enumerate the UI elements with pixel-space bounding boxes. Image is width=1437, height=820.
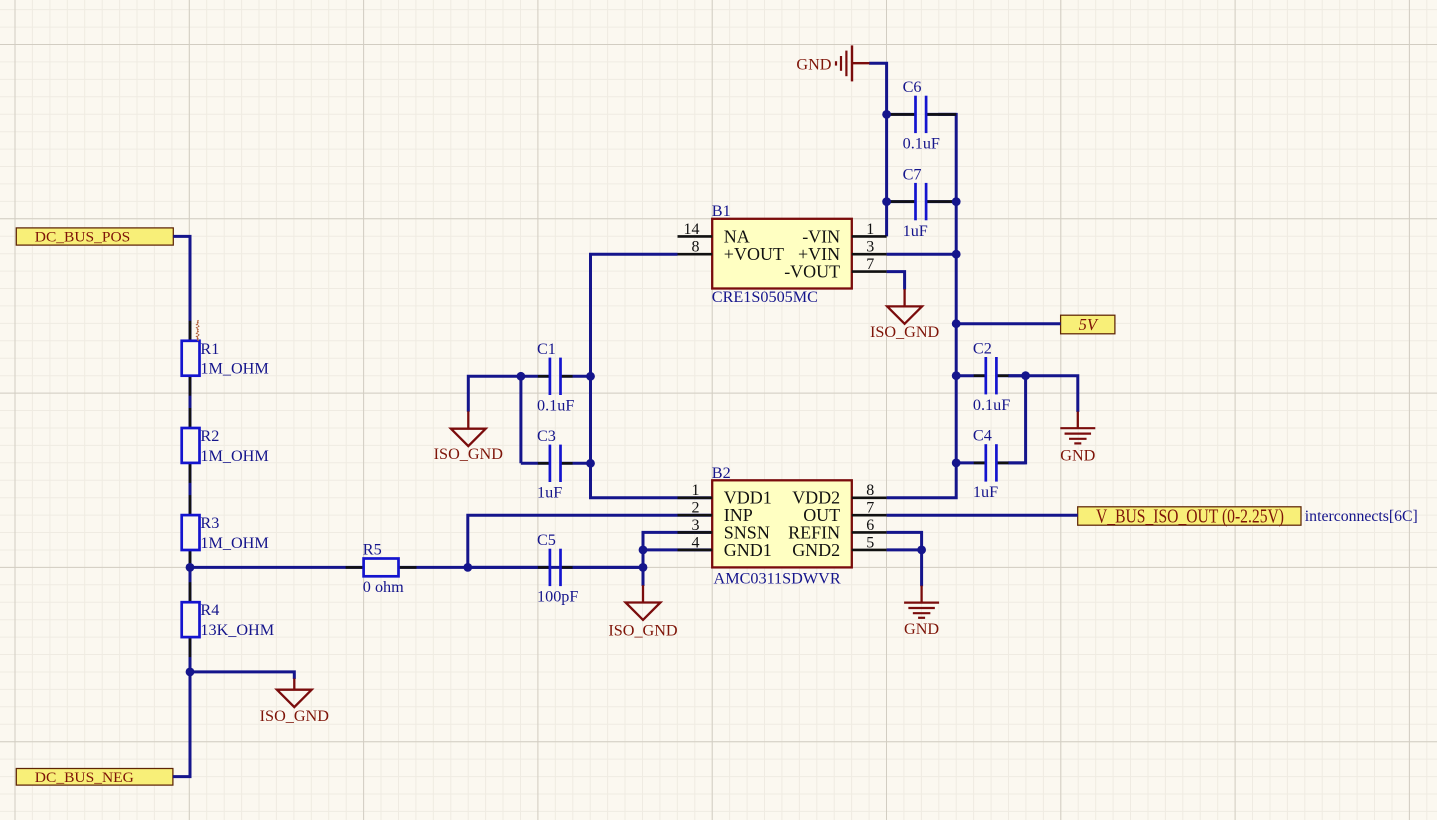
svg-text:GND: GND xyxy=(904,620,939,638)
svg-text:C1: C1 xyxy=(537,340,556,358)
wire R1 to R2 xyxy=(189,376,192,429)
wire B1 pin 8 +VOUT to B2 pin 1 VDD1 xyxy=(591,254,713,498)
svg-text:CRE1S0505MC: CRE1S0505MC xyxy=(712,288,818,306)
wire C2 right to C4 right xyxy=(1008,376,1026,463)
svg-text:interconnects[6C]: interconnects[6C] xyxy=(1305,507,1418,525)
svg-text:C3: C3 xyxy=(537,427,556,445)
svg-text:0.1uF: 0.1uF xyxy=(973,396,1010,414)
wire R5 to C5 node xyxy=(399,566,644,569)
pin 3 SNSN xyxy=(678,531,713,534)
svg-text:0 ohm: 0 ohm xyxy=(363,578,404,596)
svg-text:2: 2 xyxy=(692,500,700,517)
junction R5/C5/INP xyxy=(463,563,472,572)
svg-text:C6: C6 xyxy=(903,78,922,96)
svg-text:1: 1 xyxy=(692,482,700,499)
svg-text:ISO_GND: ISO_GND xyxy=(870,323,940,341)
svg-text:4: 4 xyxy=(692,534,700,551)
pin 1 -VIN xyxy=(852,235,887,238)
wire B2 pin 7 OUT to port xyxy=(887,514,1078,517)
ground GND top (rotated earth) xyxy=(796,45,869,81)
junction C1 left xyxy=(517,372,526,381)
pin 8 +VOUT xyxy=(678,253,713,256)
svg-text:GND: GND xyxy=(1060,446,1095,464)
wire C6 right to main vertical xyxy=(887,114,957,497)
pin 6 REFIN xyxy=(852,531,887,534)
junction C4 left xyxy=(952,459,961,468)
resistor R5 0 ohm xyxy=(346,541,417,596)
svg-text:6: 6 xyxy=(866,517,874,534)
wire INP riser to B2 pin 2 xyxy=(468,515,712,567)
svg-text:14: 14 xyxy=(684,221,700,238)
svg-text:1M_OHM: 1M_OHM xyxy=(200,534,268,552)
junction C3 right xyxy=(586,459,595,468)
svg-text:C7: C7 xyxy=(903,165,922,183)
isolated amplifier B2 AMC0311SDWVR xyxy=(678,464,887,587)
wire R2 to R3 xyxy=(189,463,192,516)
resistor R2 1M_OHM xyxy=(182,408,269,483)
wire B2 pin 3 SNSN to ISO_GND column xyxy=(643,532,712,586)
svg-text:100pF: 100pF xyxy=(537,588,578,606)
capacitor C2 0.1uF xyxy=(956,339,1025,414)
svg-text:DC_BUS_NEG: DC_BUS_NEG xyxy=(35,770,134,786)
svg-text:5: 5 xyxy=(866,534,874,551)
pin 3 +VIN xyxy=(852,253,887,256)
ground ISO_GND at R4 xyxy=(260,679,330,726)
svg-text:B1: B1 xyxy=(712,202,731,220)
svg-text:13K_OHM: 13K_OHM xyxy=(200,621,274,639)
svg-text:AMC0311SDWVR: AMC0311SDWVR xyxy=(714,569,841,587)
power port DC_BUS_POS xyxy=(16,228,173,245)
svg-text:1: 1 xyxy=(866,221,874,238)
svg-text:+VOUT: +VOUT xyxy=(724,244,784,264)
junction REFIN/GND2 xyxy=(917,546,926,555)
junction GND1 xyxy=(639,546,648,555)
junction R4/ISO_GND/DC_BUS_NEG xyxy=(186,668,195,677)
svg-text:5V: 5V xyxy=(1079,315,1099,334)
svg-text:1uF: 1uF xyxy=(973,483,998,501)
wire B2 pin 4 GND1 xyxy=(643,548,712,551)
pin 14 NA xyxy=(678,235,713,238)
wire B1 pin 7 to ISO_GND xyxy=(887,272,905,290)
svg-text:R3: R3 xyxy=(200,514,219,532)
svg-text:0.1uF: 0.1uF xyxy=(903,135,940,153)
svg-text:R4: R4 xyxy=(200,601,219,619)
junction 5V tap xyxy=(952,319,961,328)
wire C1 left to ISO_GND xyxy=(468,376,521,412)
svg-text:DC_BUS_POS: DC_BUS_POS xyxy=(35,229,131,245)
svg-text:GND1: GND1 xyxy=(724,540,772,560)
svg-text:C5: C5 xyxy=(537,531,556,549)
resistor R1 1M_OHM xyxy=(182,321,269,396)
capacitor C7 1uF xyxy=(887,165,957,240)
power port DC_BUS_NEG xyxy=(16,769,173,786)
svg-text:C2: C2 xyxy=(973,339,992,357)
junction C7 left xyxy=(882,197,891,206)
IC B1 CRE1S0505MC DC/DC converter xyxy=(678,202,887,306)
junction C5 right xyxy=(639,563,648,572)
ground ISO_GND at C5/SNSN xyxy=(608,585,678,639)
svg-text:B2: B2 xyxy=(712,464,731,482)
ground GND at C2 xyxy=(1060,412,1095,465)
svg-text:GND: GND xyxy=(796,55,831,73)
svg-text:1uF: 1uF xyxy=(537,484,562,502)
ground ISO_GND at B1 pin 7 xyxy=(870,289,940,341)
wire C1 left column to C3 xyxy=(519,376,522,463)
pin 4 GND1 xyxy=(678,549,713,552)
wire DC_BUS_POS to R1 xyxy=(173,236,190,341)
svg-text:8: 8 xyxy=(866,482,874,499)
pin 7 OUT xyxy=(852,514,887,517)
wire C2 right to GND xyxy=(1008,376,1078,412)
svg-text:C4: C4 xyxy=(973,427,992,445)
pin 1 VDD1 xyxy=(678,496,713,499)
svg-text:1M_OHM: 1M_OHM xyxy=(200,360,268,378)
junction R3/R4/R5 xyxy=(186,563,195,572)
wire R4 to DC_BUS_NEG xyxy=(173,637,190,777)
svg-text:ISO_GND: ISO_GND xyxy=(434,445,504,463)
capacitor C6 0.1uF xyxy=(887,78,957,153)
svg-text:R1: R1 xyxy=(200,340,219,358)
svg-text:R2: R2 xyxy=(200,427,219,445)
wire GND to B1 pin 1 xyxy=(869,63,887,236)
resistor R4 13K_OHM xyxy=(182,582,274,657)
svg-text:1M_OHM: 1M_OHM xyxy=(200,447,268,465)
junction C2 right xyxy=(1021,371,1030,380)
svg-text:8: 8 xyxy=(692,239,700,256)
junction C1 right xyxy=(586,372,595,381)
pin 7 -VOUT xyxy=(852,270,887,273)
capacitor C4 1uF xyxy=(956,427,1025,502)
junction C7 right xyxy=(952,197,961,206)
wire B2 pin 5 GND2 to GND xyxy=(887,550,922,586)
pin 5 GND2 xyxy=(852,549,887,552)
svg-text:V_BUS_ISO_OUT (0-2.25V): V_BUS_ISO_OUT (0-2.25V) xyxy=(1096,506,1284,527)
wire R3 to R4 xyxy=(189,550,192,603)
capacitor C5 100pF xyxy=(468,531,643,606)
junction C2 left xyxy=(952,371,961,380)
wire B1 pin 3 to main vertical xyxy=(887,253,957,256)
capacitor C1 0.1uF xyxy=(521,340,591,415)
svg-text:R5: R5 xyxy=(363,541,382,559)
junction C6 left xyxy=(882,110,891,119)
svg-text:ISO_GND: ISO_GND xyxy=(260,707,330,725)
svg-text:0.1uF: 0.1uF xyxy=(537,397,574,415)
svg-text:3: 3 xyxy=(866,239,874,256)
svg-text:GND2: GND2 xyxy=(792,540,840,560)
svg-text:1uF: 1uF xyxy=(903,222,928,240)
pin 8 VDD2 xyxy=(852,496,887,499)
capacitor C3 1uF xyxy=(521,427,591,502)
pin 2 INP xyxy=(678,514,713,517)
junction +VIN xyxy=(952,250,961,259)
svg-text:7: 7 xyxy=(866,256,874,273)
svg-text:7: 7 xyxy=(866,500,874,517)
port V_BUS_ISO_OUT (0-2.25V) xyxy=(1078,507,1301,525)
svg-text:ISO_GND: ISO_GND xyxy=(608,622,678,640)
ground ISO_GND at C1 xyxy=(434,411,504,463)
ERC marker at R1 xyxy=(197,320,199,340)
wire R4 node to ISO_GND xyxy=(190,672,294,679)
wire R3/R4 node to R5 xyxy=(190,566,364,569)
svg-text:-VOUT: -VOUT xyxy=(784,262,840,282)
resistor R3 1M_OHM xyxy=(182,495,269,570)
ground GND at B2 GND2 xyxy=(904,586,939,638)
wire 5V tap xyxy=(956,322,1060,325)
power port 5V xyxy=(1061,315,1115,334)
wire B2 pin 6 REFIN to GND2 net xyxy=(887,532,922,550)
svg-text:3: 3 xyxy=(692,517,700,534)
